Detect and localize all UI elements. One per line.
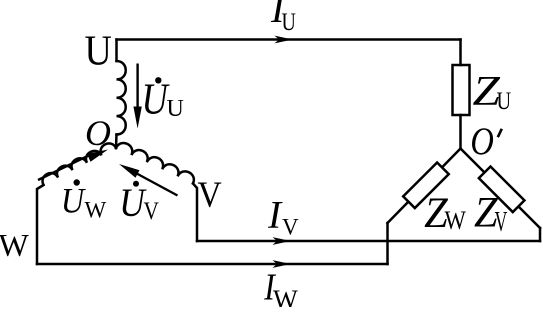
- arrow voltage UU (down): [133, 64, 141, 129]
- wire V coil elbow down: [193, 184, 197, 242]
- svg-text:V: V: [144, 196, 160, 225]
- wire bottom horizontal W phase: [37, 263, 388, 266]
- wire W coil elbow to left vertical: [37, 185, 44, 264]
- svg-text:W: W: [0, 227, 30, 263]
- svg-text:U: U: [282, 7, 296, 36]
- arrow voltage UV (to O): [119, 164, 178, 196]
- winding U (source coil): [117, 61, 126, 135]
- svg-text:O: O: [470, 120, 494, 163]
- svg-text:U: U: [85, 29, 112, 75]
- svg-text:I: I: [267, 194, 283, 237]
- arrow voltage UW (to O): [38, 150, 108, 181]
- svg-text:V: V: [198, 175, 222, 216]
- wire coil U to node O: [115, 135, 118, 149]
- arrow current IU: [275, 36, 293, 44]
- svg-text:W: W: [85, 198, 107, 223]
- label voltage UV with dot: [119, 180, 159, 225]
- arrow current IW: [273, 260, 291, 268]
- svg-text:W: W: [445, 206, 467, 235]
- svg-text:U: U: [61, 181, 86, 221]
- label voltage UW with dot: [61, 179, 107, 222]
- svg-text:O: O: [85, 113, 111, 153]
- winding V (source coil): [116, 143, 194, 184]
- svg-text:W: W: [273, 285, 298, 308]
- svg-text:U: U: [167, 96, 184, 122]
- winding W (source coil): [43, 143, 116, 185]
- impedance ZU body: [453, 65, 470, 115]
- wire right short vertical to ZV leg: [539, 228, 542, 241]
- wire leg O' to ZW: [388, 149, 461, 224]
- svg-text:U: U: [497, 86, 512, 115]
- label voltage UU with dot: [142, 74, 184, 123]
- label current IU: [270, 0, 296, 36]
- wire top-left stub U terminal: [115, 40, 118, 62]
- label current IW: [263, 267, 298, 312]
- svg-text:V: V: [495, 207, 508, 238]
- label impedance ZW: [424, 190, 466, 237]
- label current IV: [267, 194, 299, 240]
- impedance ZW body: [403, 162, 449, 208]
- wire crossover vertical to ZW leg: [386, 223, 389, 264]
- arrow current IV: [273, 237, 291, 245]
- wire ZU to node O': [459, 115, 462, 149]
- wire middle horizontal V phase: [197, 240, 540, 243]
- svg-text:V: V: [282, 215, 299, 240]
- wire leg O' to ZV: [461, 149, 541, 229]
- label impedance ZU: [473, 69, 512, 115]
- wire top horizontal: [117, 38, 461, 41]
- label impedance ZV: [474, 189, 508, 238]
- wire right vertical to ZU: [459, 40, 462, 66]
- label node O': [470, 120, 501, 163]
- impedance ZV body: [479, 166, 525, 212]
